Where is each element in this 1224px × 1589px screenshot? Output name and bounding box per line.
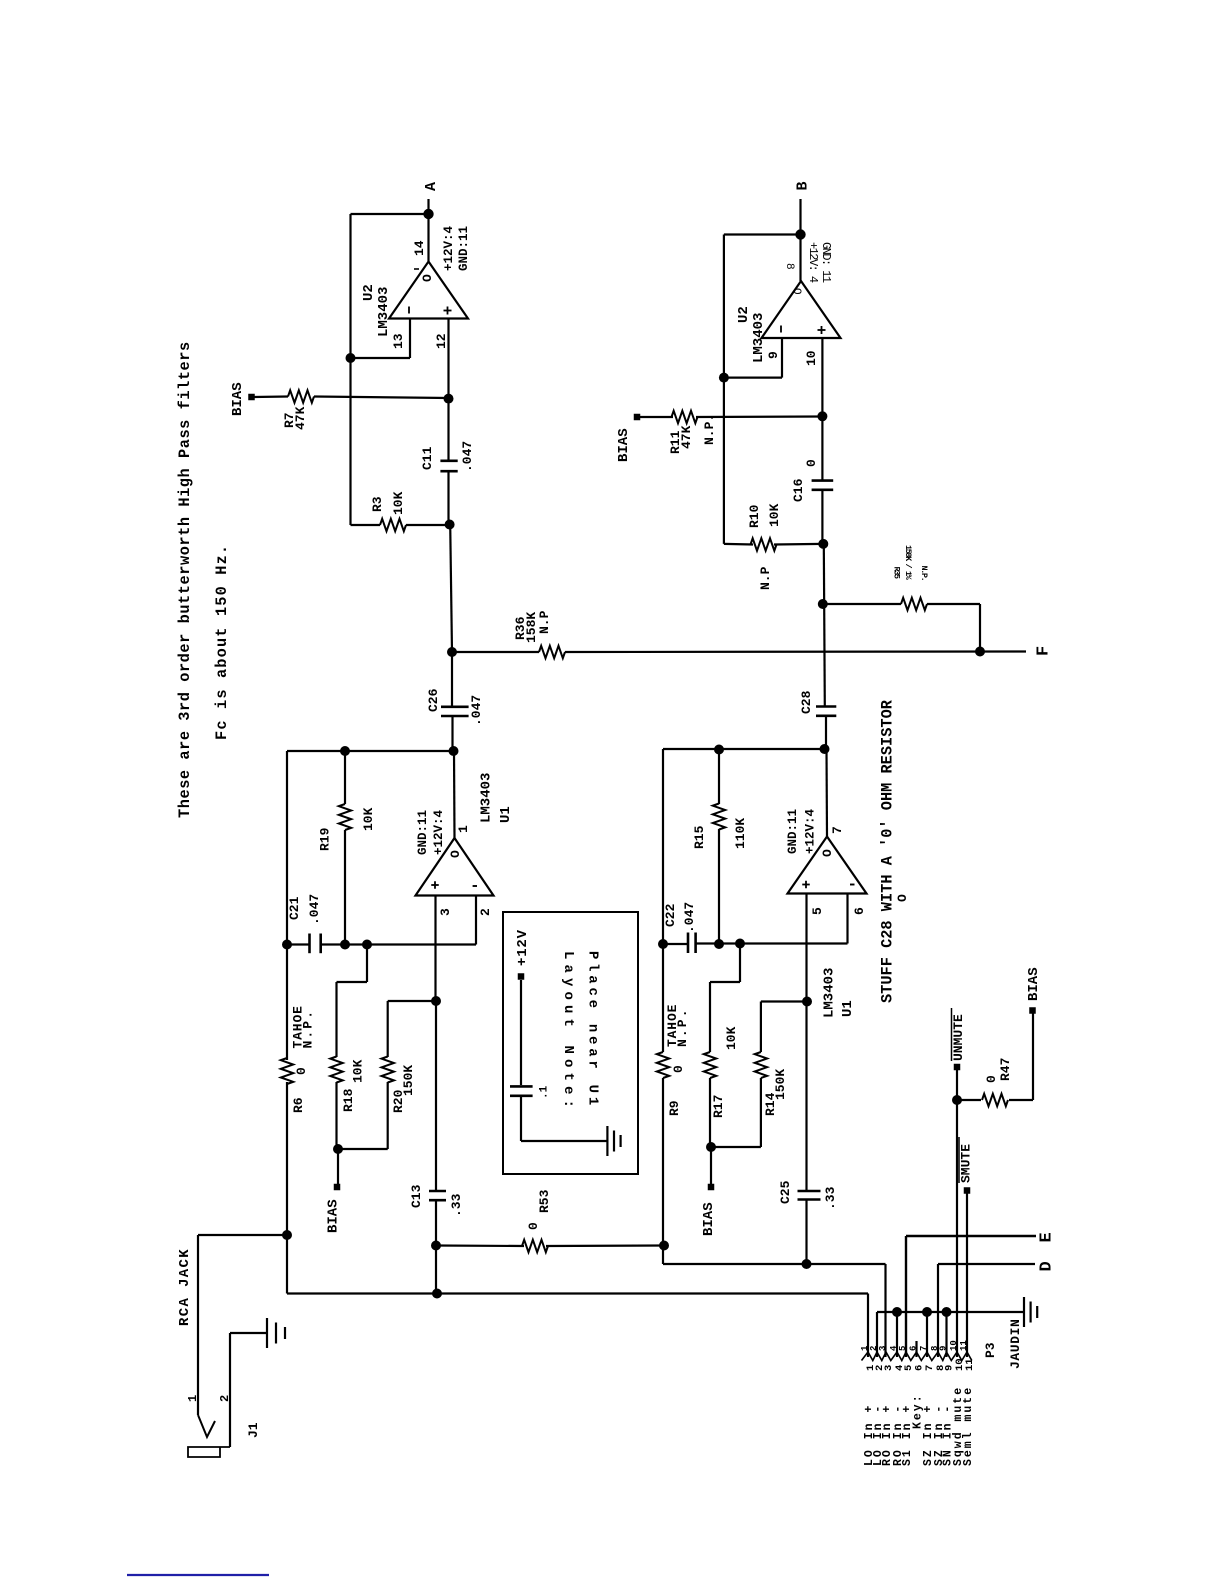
svg-text:.33: .33: [823, 1186, 838, 1210]
svg-text:3: 3: [438, 908, 453, 916]
svg-text:U1: U1: [840, 1000, 856, 1017]
svg-text:+12V:4: +12V:4: [442, 225, 456, 271]
svg-text:10: 10: [804, 350, 819, 366]
svg-text:11: 11: [959, 1340, 969, 1351]
svg-text:R3: R3: [370, 496, 385, 512]
svg-text:10K: 10K: [351, 1059, 366, 1083]
svg-text:R53: R53: [537, 1189, 552, 1213]
svg-text:STUFF C28 WITH A '0' OHM RESI: STUFF C28 WITH A '0' OHM RESISTOR: [879, 699, 897, 1003]
svg-text:P3: P3: [983, 1342, 998, 1358]
svg-text:N.P.: N.P.: [702, 414, 717, 445]
svg-text:LM3403: LM3403: [479, 773, 495, 823]
svg-text:R6: R6: [291, 1097, 306, 1113]
svg-text:O: O: [420, 274, 435, 282]
svg-text:LM3403: LM3403: [376, 287, 392, 337]
svg-text:2: 2: [218, 1395, 232, 1402]
svg-text:+12V:4: +12V:4: [804, 808, 818, 854]
svg-text:12: 12: [434, 333, 449, 349]
svg-text:1: 1: [456, 825, 471, 833]
svg-text:BIAS: BIAS: [1026, 967, 1042, 1001]
svg-text:.047: .047: [307, 894, 322, 925]
svg-text:U1: U1: [498, 806, 514, 823]
svg-text:C22: C22: [663, 903, 678, 927]
svg-text:C26: C26: [426, 688, 441, 712]
svg-text:LM3403: LM3403: [822, 968, 838, 1018]
svg-text:10K: 10K: [391, 491, 406, 515]
svg-text:BIAS: BIAS: [701, 1202, 717, 1236]
svg-text:.047: .047: [469, 695, 484, 726]
svg-text:10K: 10K: [724, 1026, 739, 1050]
svg-text:O: O: [820, 849, 835, 857]
svg-text:10: 10: [949, 1340, 959, 1351]
svg-text:R9: R9: [667, 1100, 682, 1116]
svg-text:13: 13: [391, 333, 406, 349]
svg-text:F: F: [1035, 646, 1054, 656]
svg-text:R15: R15: [692, 825, 707, 849]
svg-text:0: 0: [294, 1067, 309, 1075]
svg-text:+12V: +12V: [515, 929, 531, 966]
svg-text:LM3403: LM3403: [751, 313, 767, 363]
svg-text:J1: J1: [246, 1422, 261, 1438]
svg-text:2: 2: [478, 908, 493, 916]
svg-text:C25: C25: [778, 1180, 793, 1204]
svg-text:5: 5: [898, 1346, 908, 1351]
svg-text:BIAS: BIAS: [230, 382, 246, 416]
svg-text:14: 14: [412, 240, 427, 256]
svg-text:+12V:4: +12V:4: [432, 809, 446, 855]
svg-text:7: 7: [830, 826, 845, 834]
svg-text:R19: R19: [318, 827, 333, 851]
svg-text:Fc is about 150 Hz.: Fc is about 150 Hz.: [213, 544, 231, 740]
svg-text:150K: 150K: [401, 1065, 416, 1096]
svg-text:Place near U1: Place near U1: [585, 951, 601, 1109]
svg-text:7: 7: [919, 1346, 929, 1351]
svg-text:R18: R18: [341, 1088, 356, 1112]
svg-text:11: 11: [964, 1358, 976, 1371]
svg-text:BIAS: BIAS: [616, 428, 632, 462]
svg-text:GND:11: GND:11: [416, 810, 430, 855]
svg-text:0: 0: [671, 1065, 686, 1073]
svg-text:Seml mute: Seml mute: [962, 1386, 975, 1466]
svg-text:+12V: 4: +12V: 4: [806, 242, 820, 283]
svg-text:C28: C28: [799, 690, 814, 714]
svg-text:150K: 150K: [773, 1069, 788, 1100]
svg-text:9: 9: [766, 351, 781, 359]
svg-text:U2: U2: [361, 284, 377, 301]
svg-text:8: 8: [783, 263, 795, 270]
svg-text:GND:11: GND:11: [457, 226, 471, 271]
svg-text:These are 3rd order butterwo: These are 3rd order butterworth High Pas…: [176, 341, 194, 818]
svg-text:R10: R10: [747, 504, 762, 528]
svg-text:O: O: [448, 850, 463, 858]
svg-text:10K: 10K: [767, 503, 782, 527]
svg-text:B: B: [795, 181, 812, 190]
svg-text:6: 6: [909, 1346, 919, 1351]
svg-text:R17: R17: [711, 1095, 726, 1118]
svg-text:U2: U2: [736, 306, 752, 323]
svg-text:0: 0: [526, 1222, 541, 1230]
svg-text:.33: .33: [449, 1193, 464, 1217]
svg-text:C13: C13: [409, 1184, 424, 1208]
svg-text:.047: .047: [682, 902, 697, 933]
svg-text:110K: 110K: [733, 818, 748, 849]
svg-text:3: 3: [878, 1346, 888, 1351]
svg-text:N.P.: N.P.: [675, 1007, 690, 1047]
svg-text:1: 1: [186, 1395, 200, 1402]
svg-text:GND:11: GND:11: [786, 809, 800, 854]
svg-text:N.P: N.P: [758, 566, 773, 590]
svg-text:O: O: [790, 288, 802, 295]
svg-text:UNMUTE: UNMUTE: [951, 1014, 966, 1061]
svg-text:C11: C11: [420, 446, 435, 470]
svg-text:E: E: [1038, 1232, 1057, 1242]
svg-text:C16: C16: [791, 478, 806, 502]
svg-text:0: 0: [984, 1075, 999, 1083]
svg-text:N.P.: N.P.: [301, 1009, 316, 1049]
svg-text:SMUTE: SMUTE: [959, 1144, 974, 1183]
svg-text:47K: 47K: [293, 406, 308, 430]
svg-text:N.P.: N.P.: [919, 566, 929, 581]
svg-text:9: 9: [939, 1346, 949, 1351]
svg-text:6: 6: [852, 907, 867, 915]
svg-text:GND: 11: GND: 11: [819, 242, 833, 283]
svg-text:0: 0: [804, 459, 819, 467]
svg-text:A: A: [423, 182, 440, 191]
svg-text:RCA JACK: RCA JACK: [177, 1248, 193, 1326]
svg-text:.047: .047: [460, 441, 475, 472]
svg-text:10K: 10K: [361, 807, 376, 831]
svg-text:Layout Note:: Layout Note:: [560, 951, 576, 1113]
svg-text:O: O: [895, 894, 910, 902]
svg-text:47K: 47K: [679, 425, 694, 449]
svg-text:JAUDIN: JAUDIN: [1008, 1319, 1023, 1369]
svg-text:BIAS: BIAS: [326, 1199, 342, 1233]
svg-text:R35: R35: [892, 567, 902, 579]
svg-text:D: D: [1038, 1261, 1057, 1271]
svg-text:N.P: N.P: [537, 610, 552, 634]
svg-text:R47: R47: [998, 1058, 1013, 1081]
svg-text:.1: .1: [539, 1085, 551, 1099]
svg-text:158K / 1%: 158K / 1%: [903, 545, 913, 581]
svg-text:C21: C21: [287, 896, 302, 920]
svg-text:5: 5: [810, 907, 825, 915]
